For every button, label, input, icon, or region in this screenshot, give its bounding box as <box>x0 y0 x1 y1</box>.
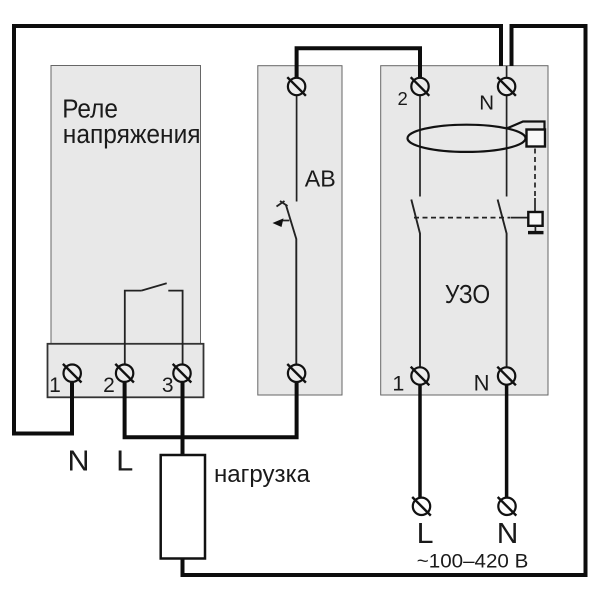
svg-text:3: 3 <box>162 374 174 397</box>
svg-text:1: 1 <box>392 372 404 396</box>
svg-text:1: 1 <box>49 374 61 397</box>
svg-text:L: L <box>116 446 133 478</box>
svg-text:N: N <box>479 91 494 114</box>
svg-text:АВ: АВ <box>305 165 336 191</box>
svg-text:L: L <box>417 518 434 550</box>
svg-text:УЗО: УЗО <box>445 281 490 309</box>
svg-text:2: 2 <box>398 88 408 109</box>
svg-text:2: 2 <box>103 374 115 397</box>
svg-text:N: N <box>497 518 519 550</box>
svg-text:Реле: Реле <box>62 96 118 124</box>
svg-text:нагрузка: нагрузка <box>214 461 310 488</box>
svg-text:напряжения: напряжения <box>63 121 201 149</box>
svg-text:~100–420 В: ~100–420 В <box>417 551 529 572</box>
svg-text:N: N <box>68 446 90 478</box>
svg-text:N: N <box>474 371 490 396</box>
